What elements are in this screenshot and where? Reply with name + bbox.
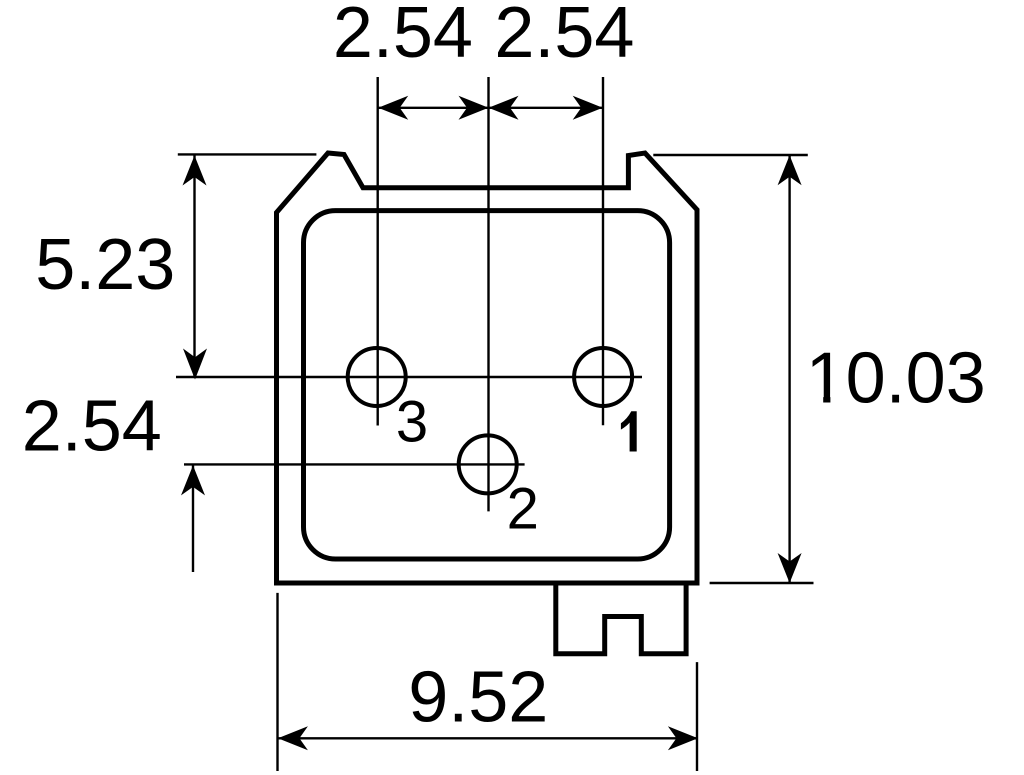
arrowhead left (2.54 first span)	[378, 96, 408, 120]
9.52 right extension line	[696, 662, 698, 771]
inner rounded-corner face	[304, 211, 670, 559]
svg-text:10.03: 10.03	[806, 338, 986, 418]
arrowhead right (2.54 second span)	[573, 96, 603, 120]
svg-text:3: 3	[396, 390, 428, 455]
pin label 1	[621, 411, 637, 451]
arrowhead right (2.54 first span)	[459, 96, 489, 120]
arrowhead up (5.23)	[183, 156, 207, 186]
pin 2 vertical centerline / extension	[487, 77, 489, 511]
2.54 left dimension leader	[192, 465, 194, 572]
svg-text:2: 2	[507, 477, 539, 542]
white patch removing left foot serif of 1 in 10.03	[808, 394, 824, 404]
pin 1 circle	[574, 348, 632, 406]
svg-text:2.54: 2.54	[494, 0, 634, 73]
centerline through pin 2	[184, 463, 525, 465]
svg-text:9.52: 9.52	[408, 657, 548, 737]
arrowhead down (5.23)	[183, 349, 207, 380]
svg-text:5.23: 5.23	[35, 225, 175, 305]
arrowhead up (2.54 left)	[181, 465, 205, 495]
arrowhead left (9.52)	[278, 726, 308, 750]
top-right extension line	[653, 154, 808, 156]
pin 2 circle	[459, 435, 517, 493]
arrowhead up (10.03)	[778, 155, 802, 185]
10.03 dimension line	[788, 155, 790, 583]
pin 1 vertical centerline / extension	[602, 77, 604, 425]
top-left extension line	[178, 153, 317, 155]
5.23 dimension line	[193, 156, 195, 377]
arrowhead left (2.54 second span)	[489, 96, 519, 120]
body outline (outer package profile with corner chamfers and top notches)	[277, 153, 698, 583]
9.52 left extension line	[276, 593, 278, 771]
arrowhead down (10.03)	[778, 553, 802, 583]
arrowhead right (9.52)	[668, 726, 698, 750]
pin 3 vertical centerline / extension	[377, 77, 379, 426]
white patch removing right foot serif of 1 in 10.03	[830, 394, 843, 404]
pin 3 circle	[348, 348, 406, 406]
9.52 dimension line	[278, 737, 698, 739]
bottom-right extension line	[710, 582, 814, 584]
svg-text:2.54: 2.54	[333, 0, 473, 73]
bottom mounting tab with notch	[556, 583, 686, 654]
2.54 top dimension line	[378, 107, 603, 109]
svg-text:2.54: 2.54	[22, 387, 162, 467]
centerline through pins 1 and 3	[176, 376, 642, 378]
